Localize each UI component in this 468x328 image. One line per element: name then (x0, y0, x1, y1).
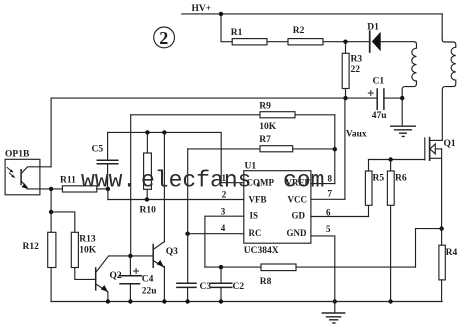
svg-text:Q2: Q2 (110, 271, 122, 281)
svg-text:6: 6 (326, 208, 331, 218)
svg-text:OP1B: OP1B (5, 150, 30, 160)
node HV+ rail (182, 13, 443, 15)
svg-text:com: com (283, 168, 324, 194)
ground under C1 (391, 98, 416, 136)
resistor R4 (439, 245, 458, 301)
inductor secondary winding L2 (442, 40, 456, 141)
wire R9 branch down to Q3 base (130, 115, 132, 256)
wire R11 node down to VFB row (107, 189, 109, 200)
svg-text:VFB: VFB (249, 195, 267, 205)
ground symbol bottom (322, 302, 344, 324)
svg-text:VCC: VCC (288, 195, 308, 205)
svg-text:C5: C5 (92, 145, 104, 155)
wire current sense branch (416, 229, 442, 268)
svg-text:Q1: Q1 (444, 139, 456, 149)
optocoupler OP1B (5, 150, 51, 195)
svg-text:D1: D1 (367, 23, 379, 33)
svg-text:R3: R3 (351, 55, 363, 65)
svg-text:4: 4 (221, 223, 226, 233)
wire Vaux long line (51, 97, 377, 99)
node gate/R6 junction (388, 157, 392, 161)
wire R2 to node (323, 41, 369, 43)
wire R11 row (27, 188, 62, 190)
resistor R11 (60, 176, 108, 193)
ic U1 UC384X (244, 161, 311, 256)
svg-text:R10: R10 (140, 205, 157, 215)
svg-text:HV+: HV+ (192, 4, 212, 14)
resistor R1 (231, 28, 267, 45)
svg-text:10K: 10K (79, 246, 97, 256)
capacitor C2 (211, 267, 245, 301)
node R10/VFB junction (145, 197, 149, 201)
svg-text:R5: R5 (373, 174, 385, 184)
svg-text:10K: 10K (259, 122, 277, 132)
svg-text:C2: C2 (233, 282, 245, 292)
svg-text:RC: RC (249, 228, 262, 238)
svg-text:R1: R1 (231, 28, 243, 38)
node junction R2/R3/D1 (343, 40, 347, 44)
wire opto collector to Vaux line (50, 98, 52, 167)
wire R1-R2 (267, 41, 288, 43)
svg-text:R12: R12 (23, 242, 40, 252)
node C2 top junction (219, 265, 223, 269)
node R12/R13 junction (49, 210, 53, 214)
node VREF/R7 junction (333, 147, 337, 151)
svg-text:22: 22 (351, 65, 361, 75)
wire HV+ feed down to R1 (221, 14, 232, 42)
node R11 left junction (49, 187, 53, 191)
svg-text:GND: GND (287, 228, 308, 238)
wire R7/RC/C3 vertical (187, 149, 189, 283)
svg-text:R7: R7 (259, 135, 271, 145)
node Q3 collector junction (162, 130, 166, 134)
node rail dots (106, 299, 110, 303)
node R11/C5/VFB junction (106, 187, 110, 191)
node Q1 source/R4/sense junction (439, 226, 443, 230)
svg-text:47u: 47u (372, 111, 388, 121)
node C1/winding junction (400, 96, 404, 100)
wire R9 row (131, 114, 335, 116)
wire Q2 collector / Q3 base row (109, 255, 154, 257)
resistor R13 (51, 212, 97, 280)
mosfet Q1 (425, 138, 456, 161)
capacitor C1 (368, 77, 402, 122)
resistor R8 (260, 264, 296, 287)
transistor Q3 (153, 132, 178, 301)
resistor R12 (23, 212, 56, 302)
wire Q1 gate row (369, 159, 425, 161)
svg-text:5: 5 (326, 224, 331, 234)
wire R7 row (188, 148, 335, 150)
capacitor C4 (119, 256, 157, 302)
svg-text:UC384X: UC384X (244, 246, 279, 256)
resistor R6 (387, 160, 406, 302)
node HV+ dot (219, 12, 223, 16)
wire top rail right corner down (441, 14, 443, 40)
capacitor C5 (92, 132, 118, 189)
resistor R5 (365, 160, 384, 217)
capacitor C3 (177, 282, 211, 302)
net VREF vertical (334, 115, 336, 184)
svg-text:7: 7 (328, 189, 333, 199)
svg-text:C1: C1 (373, 77, 385, 87)
node R3/C1 junction (343, 96, 347, 100)
svg-text:elecfans.: elecfans. (141, 168, 265, 194)
pin 2 VFB row (108, 199, 244, 201)
resistor R2 (288, 26, 323, 45)
resistor R9 (259, 102, 295, 133)
resistor R10 (140, 132, 157, 215)
resistor R3 (342, 42, 362, 98)
svg-text:R11: R11 (60, 176, 76, 186)
figure number circled 2 (154, 27, 175, 48)
pin 8 VREF lead (311, 183, 335, 185)
net Vaux vertical to VCC (344, 98, 346, 199)
node RC junction (185, 232, 189, 236)
svg-text:R2: R2 (293, 26, 305, 36)
wire D1 to primary winding (381, 41, 414, 43)
node R10 top junction (145, 130, 149, 134)
wire R8 row (205, 266, 416, 268)
resistor R7 (259, 135, 292, 152)
svg-text:8: 8 (328, 174, 333, 184)
svg-text:www.: www. (81, 168, 136, 194)
transistor Q2 (96, 256, 122, 302)
wire Q1 source down to sense node (441, 149, 443, 245)
pin 5 GND lead (311, 236, 335, 302)
pin 7 VCC lead (311, 198, 345, 200)
diode D1 (367, 23, 380, 53)
svg-text:3: 3 (221, 206, 226, 216)
svg-text:R13: R13 (79, 235, 96, 245)
wire COMP row (108, 132, 222, 182)
svg-text:C4: C4 (142, 275, 154, 285)
pin 4 RC lead (188, 233, 244, 235)
svg-text:C3: C3 (200, 282, 212, 292)
svg-text:2: 2 (159, 28, 168, 48)
svg-text:R6: R6 (395, 174, 407, 184)
wire R11 dot down to R12/R13 (50, 189, 52, 212)
svg-text:R9: R9 (259, 102, 271, 112)
svg-text:R4: R4 (446, 248, 458, 258)
svg-text:Q3: Q3 (166, 247, 178, 257)
svg-text:R8: R8 (260, 277, 272, 287)
bottom ground rail (51, 301, 442, 303)
svg-text:22u: 22u (142, 286, 158, 296)
svg-text:IS: IS (250, 211, 259, 221)
pin 1 COMP lead (221, 182, 244, 184)
pin 6 GD lead (311, 216, 369, 218)
pin 3 IS lead (205, 216, 244, 267)
svg-text:Vaux: Vaux (346, 129, 367, 139)
node C4/Q3 base junction (128, 254, 132, 258)
svg-text:GD: GD (292, 211, 306, 221)
inductor primary winding L1 (402, 42, 416, 98)
